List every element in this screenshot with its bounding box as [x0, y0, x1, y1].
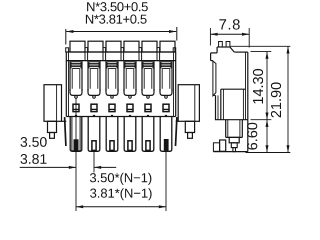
contact cavity arch 3	[106, 89, 118, 95]
clamp channel 5 inner walls	[143, 69, 145, 89]
contact dot 1	[75, 96, 78, 99]
extension line pin 1	[75, 98, 77, 211]
leg pocket 2	[88, 117, 100, 152]
pin 5	[146, 141, 150, 151]
dimension text N*3.81+0.5	[86, 15, 147, 24]
extension line bottom (plate)	[246, 152, 291, 154]
wire clamp screw block 4	[124, 62, 126, 69]
inner wall left	[68, 52, 70, 117]
pin 1 (solid)	[74, 139, 79, 151]
pin 2	[92, 141, 96, 151]
extension line top for 21.90	[230, 45, 290, 47]
dimension line 21.90	[287, 46, 289, 152]
wire clamp screw block 6	[160, 62, 162, 69]
side cavity	[220, 89, 222, 120]
label 21.90 (rotated)	[271, 82, 281, 117]
side right edge	[247, 52, 249, 152]
span dimension line pin1-pin6	[76, 206, 166, 208]
clamp channel 1 outer walls	[69, 61, 71, 91]
tick on body bottom at pin 1	[75, 115, 77, 117]
contact cavity arch 5	[142, 89, 154, 95]
clamp channel 6 inner walls	[161, 69, 163, 89]
contact dot 6	[165, 96, 168, 99]
clamp channel 6 outer walls	[159, 61, 161, 91]
left edge step	[66, 48, 69, 52]
solder hole square 4	[127, 104, 133, 111]
solder hole square 3	[109, 104, 115, 111]
left ear latch	[48, 121, 57, 132]
leg pocket 6	[160, 117, 172, 152]
contact dot 3	[111, 96, 114, 99]
contact dot 2	[93, 96, 96, 99]
dimension line 14.30	[266, 52, 268, 120]
side mounting foot	[220, 140, 226, 151]
side inner right wall	[245, 52, 247, 120]
clamp channel 3 outer walls	[105, 61, 107, 91]
left outer leg taper	[65, 117, 66, 146]
solder hole square 1	[73, 104, 79, 111]
top tab 2	[88, 41, 103, 52]
clamp channel 5 outer walls	[141, 61, 143, 91]
pin 3	[110, 141, 114, 151]
pitch dimension line (3.50/3.81)	[20, 166, 76, 168]
separator nub 4	[139, 48, 142, 61]
side bottom plate	[213, 151, 247, 153]
leg pocket 5	[142, 117, 154, 152]
separator nub 1	[85, 48, 88, 61]
contact dot 4	[129, 96, 132, 99]
side body top shoulder	[211, 52, 218, 54]
contact cavity arch 1	[70, 89, 82, 95]
span label 3.50*(N−1)	[90, 173, 152, 185]
solder hole square 2	[91, 104, 97, 111]
tick on body bottom at pin 3	[111, 115, 113, 117]
separator nub 5	[157, 48, 160, 61]
right edge step	[173, 48, 176, 52]
overall width dimension line with arrows	[66, 31, 176, 33]
extension line pin 6	[165, 152, 167, 212]
right mounting ear	[178, 85, 199, 122]
side pin shroud	[225, 120, 227, 138]
separator nub 2	[103, 48, 106, 61]
contact dot 5	[147, 96, 150, 99]
side shroud step	[229, 137, 239, 142]
clamp channel 2 outer walls	[87, 61, 89, 91]
tick on body bottom at pin 6	[165, 115, 167, 117]
left ear latch nub	[50, 133, 55, 139]
wire clamp screw block 2	[88, 62, 90, 69]
clamp channel 2 inner walls	[89, 69, 91, 89]
top tab 4	[124, 41, 139, 52]
leg pocket 4	[124, 117, 136, 152]
extension line top for 14.30	[251, 51, 272, 53]
leg pocket 3	[106, 117, 118, 152]
contact cavity arch 4	[124, 89, 136, 95]
pitch label 3.81	[20, 154, 46, 164]
clamp channel 3 inner walls	[107, 69, 109, 89]
left mounting ear	[44, 85, 62, 122]
span label 3.81*(N−1)	[90, 188, 152, 200]
side cavity floor	[215, 119, 248, 121]
extension line mid (cavity floor)	[251, 119, 272, 121]
side width extension lines	[209, 28, 211, 46]
extension line pin 2	[93, 151, 95, 173]
side cap plateau and slant	[216, 47, 218, 53]
side width label 7.8	[219, 19, 239, 29]
pin 6 (solid)	[164, 139, 169, 151]
side solder pin	[231, 143, 237, 148]
pitch label 3.50	[20, 137, 46, 147]
contact cavity arch 2	[88, 89, 100, 95]
inner snug box around pin 1	[72, 117, 80, 151]
top tab 5	[142, 41, 157, 52]
solder hole square 5	[145, 104, 151, 111]
solder hole square 6	[163, 104, 169, 111]
side clamp prong 2	[226, 42, 230, 48]
extension line left of overall width	[65, 29, 67, 45]
top tab 3	[106, 41, 121, 52]
wire clamp screw block 1	[70, 62, 72, 69]
right ear latch	[185, 121, 194, 132]
wire clamp screw block 5	[142, 62, 144, 69]
tick on body bottom at pin 5	[147, 115, 149, 117]
side left step below arm	[213, 94, 216, 96]
side width dimension line	[210, 33, 249, 35]
top tab 6	[160, 41, 175, 52]
separator nub 3	[121, 48, 124, 61]
extension line right of overall width	[176, 27, 178, 41]
tick on body bottom at pin 4	[129, 115, 131, 117]
pin 4	[128, 141, 132, 151]
side left edge lower	[215, 95, 217, 119]
dimension text N*3.50+0.5	[87, 2, 148, 11]
contact cavity arch 6	[160, 89, 172, 95]
right ear latch nub	[188, 133, 193, 139]
clamp channel 4 inner walls	[125, 69, 127, 89]
wire clamp screw block 3	[106, 62, 108, 69]
housing body outline	[65, 52, 67, 117]
side clamp prong 1	[219, 42, 223, 48]
tick on body bottom at pin 2	[93, 115, 95, 117]
top tab 1	[70, 41, 85, 52]
clamp channel 4 outer walls	[123, 61, 125, 91]
inner wall right	[173, 52, 175, 117]
side left edge upper	[210, 53, 212, 61]
label 14.30 (rotated)	[253, 69, 263, 104]
leg pocket 1	[70, 117, 82, 152]
right outer leg taper	[176, 117, 177, 146]
clamp channel 1 inner walls	[71, 69, 73, 89]
side latch arm	[213, 61, 216, 96]
dimension line 6.60	[266, 120, 268, 153]
label 6.60 (rotated)	[247, 123, 257, 150]
